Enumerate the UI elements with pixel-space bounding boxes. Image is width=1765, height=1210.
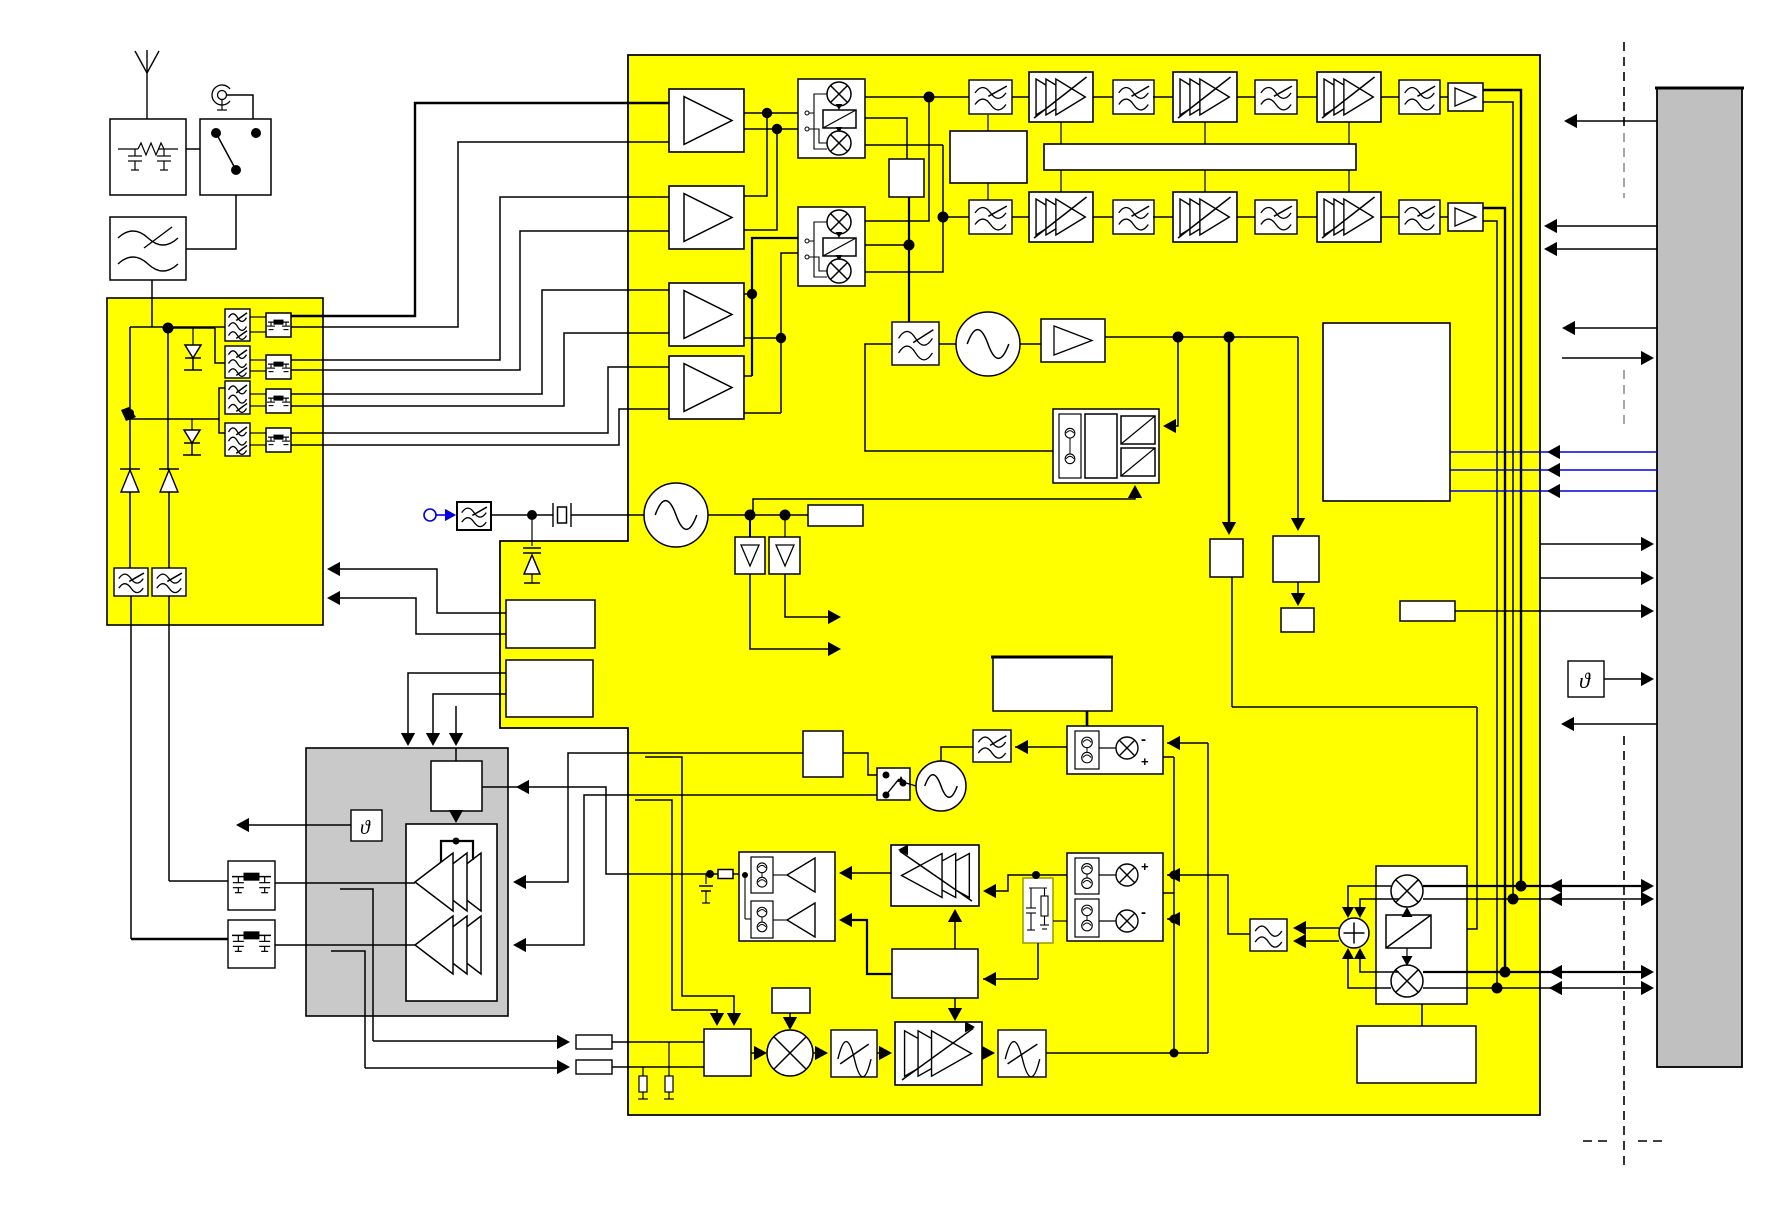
svg-text:+: +: [1141, 754, 1149, 769]
svg-text:+: +: [1141, 859, 1149, 874]
svg-text:ϑ: ϑ: [360, 817, 371, 839]
svg-text:ϑ: ϑ: [1579, 668, 1591, 693]
svg-text:-: -: [1141, 904, 1146, 921]
svg-text:-: -: [1141, 731, 1146, 748]
